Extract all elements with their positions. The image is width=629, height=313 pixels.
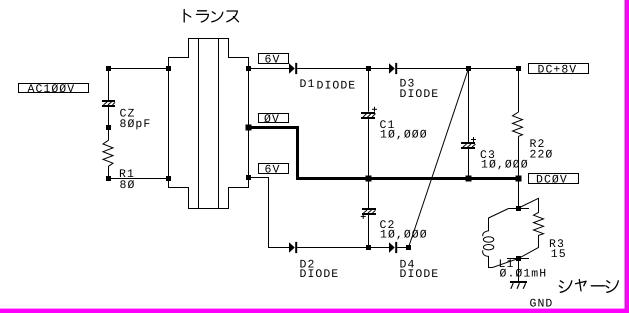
svg-text:8ØpF: 8ØpF: [120, 118, 152, 131]
junction DC0V on bus (bold): [516, 176, 522, 182]
label トランス: [184, 10, 238, 23]
junction C2 bottom: [366, 245, 371, 250]
wire D3 to node B and R2 top: [397, 68, 518, 70]
junction L/R top: [516, 206, 521, 211]
svg-text:1Ø,ØØØ: 1Ø,ØØØ: [481, 158, 529, 171]
wire 6V top tap: [249, 68, 290, 70]
svg-text:1Ø,ØØØ: 1Ø,ØØØ: [380, 128, 428, 141]
junction node A (C1 top): [366, 66, 371, 71]
inductor L1: [483, 209, 548, 281]
svg-text:D1: D1: [300, 78, 316, 91]
junction at left wire bottom: [106, 176, 111, 181]
capacitor C3: [461, 69, 529, 178]
wire 6V lower tap: [249, 178, 290, 248]
port AC100V: [19, 83, 89, 96]
junction R2 top: [516, 66, 521, 71]
wire bold 0V bus: [250, 128, 519, 179]
junction at transformer left bottom: [166, 176, 171, 181]
port 6V top: [259, 53, 289, 66]
svg-text:6V: 6V: [265, 53, 281, 66]
junction transformer right bottom: [246, 175, 251, 180]
junction C3 bottom on bus (bold): [466, 176, 472, 182]
wire left vertical upper: [108, 69, 110, 101]
wire DC0V junction down to L/R top: [518, 180, 520, 209]
resistor R3: [519, 198, 567, 261]
svg-text:Ø.Ø1mH: Ø.Ø1mH: [500, 268, 548, 281]
svg-text:DIODE: DIODE: [317, 80, 357, 93]
svg-text:DCØV: DCØV: [536, 174, 568, 187]
wire diagonal node C to node B: [409, 69, 469, 248]
port DC+8V: [529, 64, 589, 77]
node L/R top bar: [509, 208, 530, 210]
diode D1: [289, 63, 356, 93]
wire D4 to node C: [397, 247, 408, 249]
junction node C (diagonal bottom): [406, 245, 411, 250]
wire D2 to D4: [297, 247, 389, 249]
capacitor C1: [361, 69, 428, 178]
svg-text:8Ø: 8Ø: [120, 179, 136, 192]
svg-text:DIODE: DIODE: [300, 268, 340, 281]
label シャーシ: [559, 280, 618, 293]
svg-text:DIODE: DIODE: [400, 88, 440, 101]
wire top-left horizontal: [109, 68, 169, 70]
junction L/R bottom: [516, 256, 521, 261]
transformer T1 outline: [169, 39, 249, 209]
wire left vertical lower: [108, 166, 110, 178]
port DC0V: [529, 174, 579, 187]
svg-text:GND: GND: [530, 297, 554, 310]
diode D4: [389, 242, 439, 281]
junction node B (C3/diagonal): [466, 66, 471, 71]
frame magenta right bar: [625, 0, 629, 313]
resistor R2: [513, 69, 554, 178]
wire D1 to D3: [297, 68, 389, 70]
wire to ground: [518, 259, 520, 282]
wire bottom-left horizontal: [109, 178, 169, 180]
junction at left wire top: [106, 66, 111, 71]
capacitor C2: [361, 180, 428, 248]
svg-text:6V: 6V: [265, 163, 281, 176]
svg-text:DIODE: DIODE: [400, 268, 440, 281]
transformer core line right: [218, 39, 220, 209]
node L/R bottom bar: [507, 258, 529, 260]
port 6V lower: [259, 163, 289, 176]
port 0V: [259, 113, 289, 126]
svg-text:15: 15: [551, 248, 567, 261]
transformer core line left: [198, 39, 200, 209]
wire left vertical middle: [108, 107, 110, 140]
junction at transformer left top: [166, 66, 171, 71]
ground (chassis): [510, 281, 553, 310]
diode D2: [289, 242, 339, 281]
junction transformer right middle (bold): [246, 125, 252, 131]
svg-text:AC1ØØV: AC1ØØV: [28, 83, 76, 96]
svg-text:1Ø,ØØØ: 1Ø,ØØØ: [380, 228, 428, 241]
svg-text:DC+8V: DC+8V: [538, 64, 578, 77]
junction C2 top on bus (bold): [366, 176, 372, 182]
diode D3: [389, 63, 439, 101]
svg-text:22Ø: 22Ø: [530, 148, 554, 161]
svg-text:ØV: ØV: [264, 113, 280, 126]
junction on left wire: [106, 125, 111, 130]
resistor R1: [103, 140, 135, 192]
junction transformer right top: [246, 66, 251, 71]
capacitor CZ: [102, 100, 151, 131]
frame magenta bottom bar: [0, 309, 629, 313]
